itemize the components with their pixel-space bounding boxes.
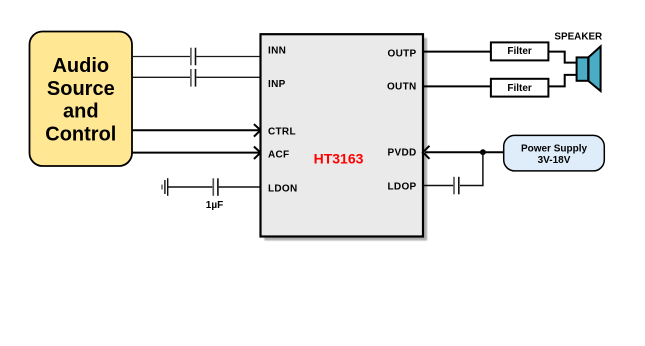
svg-text:INN: INN [268,46,286,57]
svg-text:Source: Source [47,78,115,100]
svg-text:ACF: ACF [268,149,289,160]
svg-text:Filter: Filter [507,83,532,94]
svg-text:INP: INP [268,79,286,90]
wire LDOP-to-PVDD vertical [482,152,484,186]
wire CTRL with arrowhead [132,124,261,137]
wire OUTN [423,85,491,87]
ground [162,178,168,196]
block: Power Supply 3V-18V [504,135,605,171]
IC name label HT3163 [314,150,364,166]
svg-text:LDON: LDON [268,184,298,195]
pin label INP [268,79,286,90]
capacitor C1 (INN input cap) [191,48,196,66]
pin label LDON [268,184,298,195]
wire filter F2 to speaker [548,75,576,87]
pin label PVDD [388,148,417,159]
svg-text:1µF: 1µF [206,200,223,211]
wire INP [132,76,261,78]
svg-text:Power Supply: Power Supply [521,144,588,155]
svg-text:and: and [63,101,99,123]
wire LDON [168,186,261,188]
wire ACF with arrowhead [132,147,261,160]
pin label LDOP [388,182,417,193]
wire INN [132,56,261,58]
svg-text:SPEAKER: SPEAKER [554,32,602,43]
svg-text:HT3163: HT3163 [314,150,364,166]
svg-text:Control: Control [45,124,116,146]
svg-text:OUTP: OUTP [388,49,417,60]
filter block F2 [491,79,549,97]
svg-text:PVDD: PVDD [388,148,417,159]
label SPEAKER [554,32,602,43]
svg-text:3V-18V: 3V-18V [538,155,571,166]
svg-text:Filter: Filter [507,46,532,57]
block: Audio Source and Control [30,32,133,167]
svg-text:Audio: Audio [52,55,109,77]
junction dot on PVDD net [480,149,486,155]
capacitor C3 1uF [213,178,218,196]
pin label OUTP [388,49,417,60]
capacitor C2 (INP input cap) [191,69,196,87]
speaker LS1 [577,46,601,91]
capacitor C4 (LDOP cap) [454,177,459,195]
svg-text:LDOP: LDOP [388,182,417,193]
value label 1uF [206,200,223,211]
pin label INN [268,46,286,57]
filter block F1 [491,42,549,60]
pin label CTRL [268,126,296,137]
wire filter F1 to speaker [548,52,576,63]
wire LDOP [423,185,483,187]
wire PVDD with arrowhead [423,146,504,159]
IC U1 HT3163 body with shadow [261,34,428,240]
svg-text:CTRL: CTRL [268,126,296,137]
svg-text:OUTN: OUTN [387,82,417,93]
wire OUTP [423,51,491,53]
pin label OUTN [387,82,417,93]
pin label ACF [268,149,289,160]
